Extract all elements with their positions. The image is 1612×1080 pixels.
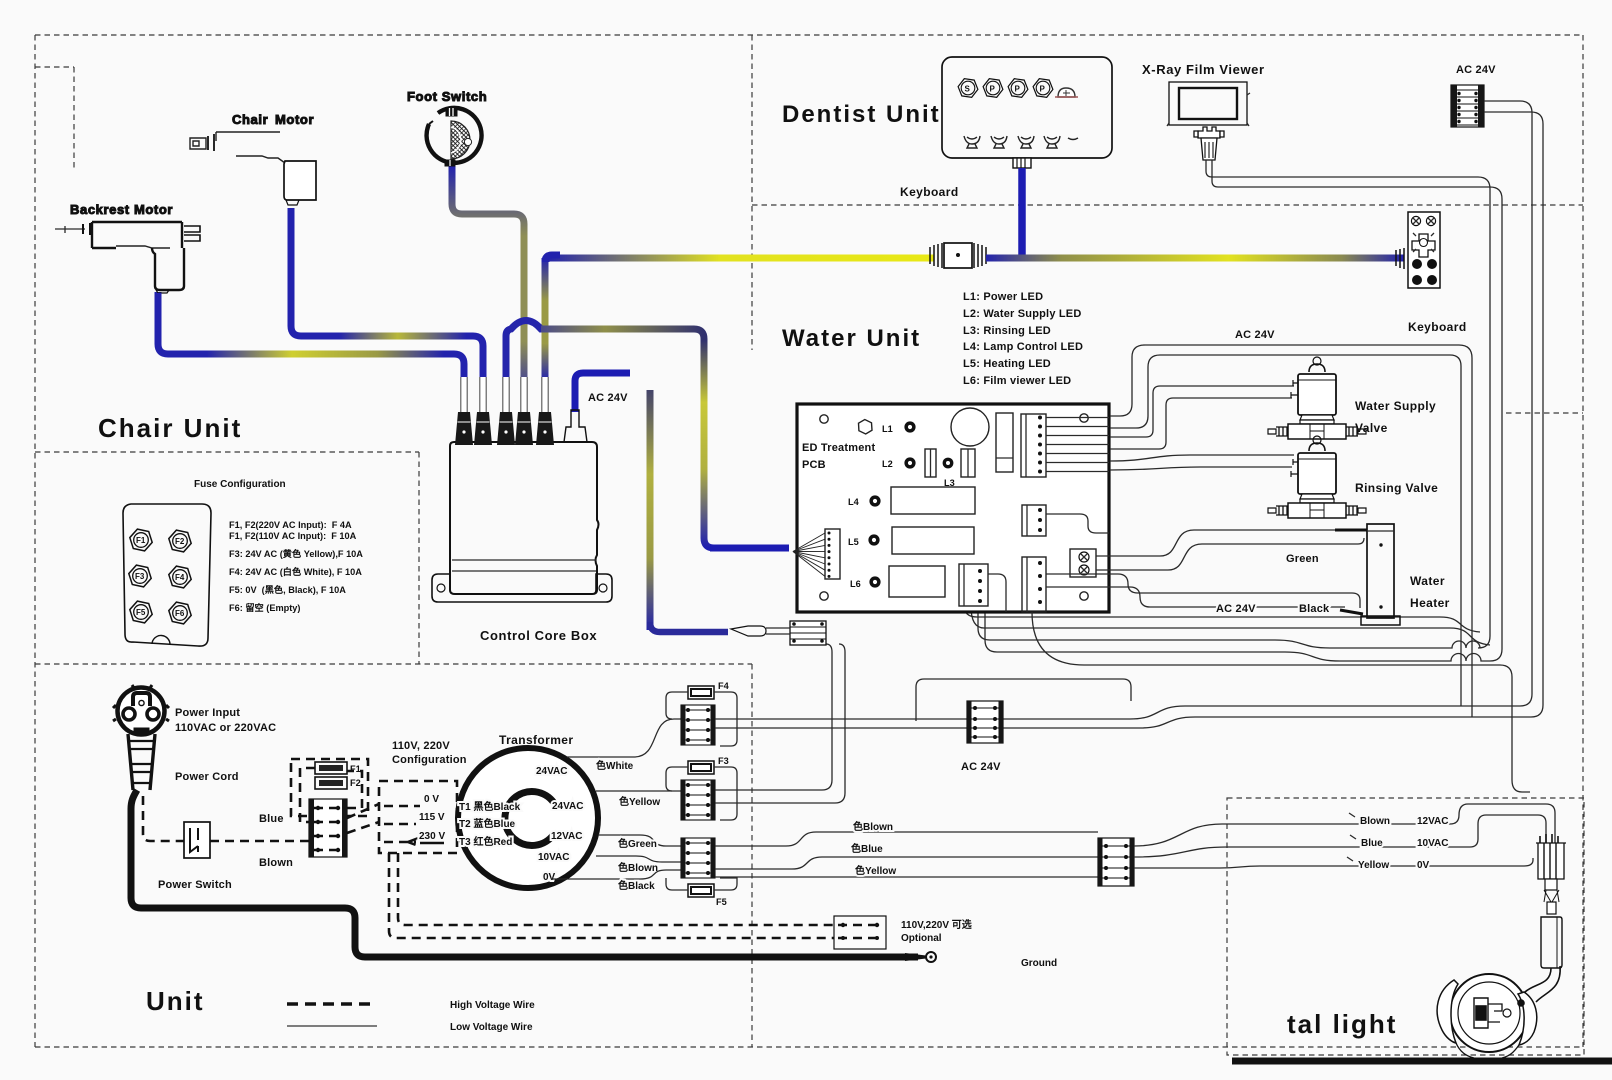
svg-text:色White: 色White bbox=[596, 759, 634, 772]
water heater body bbox=[1367, 524, 1394, 618]
svg-text:12VAC: 12VAC bbox=[551, 831, 583, 842]
svg-text:L5: Heating LED: L5: Heating LED bbox=[963, 358, 1051, 370]
x-ray plug connector bbox=[1194, 127, 1224, 160]
svg-text:PCB: PCB bbox=[802, 459, 826, 471]
svg-text:110VAC or 220VAC: 110VAC or 220VAC bbox=[175, 722, 276, 734]
svg-text:Low Voltage Wire: Low Voltage Wire bbox=[450, 1022, 533, 1033]
svg-text:色Blue: 色Blue bbox=[851, 842, 883, 855]
power switch bbox=[184, 822, 210, 858]
dentist unit chair preset icon bbox=[964, 136, 980, 144]
fuse configuration text bbox=[229, 520, 363, 613]
AC 24V connector block (top right) bbox=[1451, 85, 1484, 127]
inline plug between blue wire and connector bbox=[731, 626, 766, 636]
svg-text:High Voltage Wire: High Voltage Wire bbox=[450, 1000, 535, 1011]
svg-text:F3: F3 bbox=[135, 572, 145, 581]
tal light dashed box bbox=[1227, 798, 1584, 1055]
svg-text:Chair Unit: Chair Unit bbox=[98, 413, 242, 443]
svg-text:Rinsing Valve: Rinsing Valve bbox=[1355, 481, 1438, 495]
svg-text:230 V: 230 V bbox=[419, 831, 445, 842]
110V/220V optional dashed block bbox=[834, 916, 886, 949]
PCB bottom-right connector bbox=[1022, 557, 1046, 612]
svg-text:0V: 0V bbox=[543, 872, 556, 883]
svg-text:Ground: Ground bbox=[1021, 958, 1057, 969]
wire: AC24V bus from F4 (upper) bbox=[715, 718, 1130, 720]
fuse F3 bbox=[129, 565, 151, 587]
svg-text:Blue: Blue bbox=[259, 813, 284, 825]
svg-text:Blown: Blown bbox=[1360, 816, 1390, 827]
PCB small component pair bbox=[925, 449, 936, 477]
wire trio: F5 outputs long run to the right bbox=[715, 832, 1098, 846]
wire: bus detour jog above AC24V connector bbox=[916, 679, 1131, 721]
power cord thick wire bbox=[131, 790, 918, 957]
svg-text:AC 24V: AC 24V bbox=[1216, 603, 1256, 615]
svg-text:色Blown: 色Blown bbox=[618, 861, 658, 874]
PCB tall component bbox=[996, 413, 1013, 472]
control core box body bbox=[432, 442, 612, 602]
svg-text:L6: Film viewer LED: L6: Film viewer LED bbox=[963, 375, 1071, 387]
dentist unit keyboard box bbox=[942, 57, 1112, 158]
svg-text:T2 蓝色Blue: T2 蓝色Blue bbox=[459, 817, 516, 830]
svg-text:F6: 留空 (Empty): F6: 留空 (Empty) bbox=[229, 602, 300, 613]
svg-text:0 V: 0 V bbox=[424, 794, 439, 805]
svg-text:L1: L1 bbox=[882, 424, 893, 434]
wire: main yellow wire horizontal to inline connector bbox=[546, 255, 934, 262]
svg-text:L3: Rinsing LED: L3: Rinsing LED bbox=[963, 325, 1051, 337]
connector white tubes above control box bbox=[461, 377, 466, 412]
ED Treatment PCB board bbox=[797, 404, 1109, 612]
svg-text:L2: Water Supply LED: L2: Water Supply LED bbox=[963, 308, 1082, 320]
fuse F1 bbox=[315, 762, 347, 774]
svg-text:AC 24V: AC 24V bbox=[1235, 329, 1275, 341]
svg-text:L1: Power LED: L1: Power LED bbox=[963, 291, 1043, 303]
svg-text:Power Switch: Power Switch bbox=[158, 879, 232, 891]
svg-text:Keyboard: Keyboard bbox=[900, 185, 959, 199]
svg-text:F2: F2 bbox=[175, 537, 185, 546]
wire: AC24V loop outer (bus from F4 around water unit) bbox=[1110, 355, 1461, 706]
wire: dentist keyboard blue cable down bbox=[1018, 168, 1026, 258]
svg-text:F1, F2(220V AC Input): F 4A: F1, F2(220V AC Input): F 4A bbox=[229, 520, 352, 530]
fuse F2 bbox=[315, 777, 347, 789]
wire: 0V black output to F5 bbox=[551, 870, 681, 879]
svg-text:Chair: Chair bbox=[232, 112, 268, 127]
fuse assembly F5 connector bbox=[681, 838, 715, 878]
svg-text:L6: L6 bbox=[850, 579, 861, 589]
svg-text:X-Ray Film Viewer: X-Ray Film Viewer bbox=[1142, 62, 1265, 77]
wire pair: to rinsing valve bbox=[1110, 455, 1294, 461]
solenoid rinsing valve bbox=[1268, 436, 1366, 518]
dentist unit button icon bbox=[983, 79, 1003, 98]
svg-text:Water Unit: Water Unit bbox=[782, 325, 921, 352]
wire: 24VAC yellow output to F3 bbox=[596, 790, 681, 792]
svg-text:L4: L4 bbox=[848, 497, 860, 507]
wire: AC24V bus from F4 (lower) bbox=[715, 727, 1140, 729]
svg-text:Motor: Motor bbox=[275, 112, 314, 127]
thick page corner line bottom right bbox=[1232, 1058, 1612, 1065]
power plug bbox=[113, 685, 169, 790]
svg-text:F4: F4 bbox=[175, 573, 185, 582]
svg-text:Optional: Optional bbox=[901, 933, 942, 944]
quadrant divider horizontal y=664 (chair/power) bbox=[35, 663, 752, 665]
ground lug bbox=[905, 953, 926, 961]
svg-text:F5: 0V (黑色, Black), F 10A: F5: 0V (黑色, Black), F 10A bbox=[229, 584, 346, 595]
wire: blue into ED PCB left connector bbox=[710, 545, 789, 552]
svg-text:Transformer: Transformer bbox=[499, 733, 573, 747]
chair unit dashed box bbox=[35, 452, 419, 664]
svg-text:AC 24V: AC 24V bbox=[1456, 64, 1496, 76]
wire stub backrest motor bbox=[155, 293, 162, 300]
svg-text:Blue: Blue bbox=[1361, 838, 1383, 849]
black cable connectors on top of control box bbox=[455, 412, 473, 445]
foot switch bbox=[407, 89, 487, 166]
chair AC24V small connector (after inline plug) bbox=[790, 621, 826, 645]
svg-text:Configuration: Configuration bbox=[392, 754, 467, 766]
wire: 10VAC output to F5 bbox=[596, 856, 681, 862]
svg-text:Valve: Valve bbox=[1355, 421, 1388, 435]
svg-text:AC 24V: AC 24V bbox=[588, 392, 628, 404]
dashed wires connector to fuses loop bbox=[300, 768, 362, 822]
wire pair: terminal block to water heater top (green) bbox=[1096, 530, 1340, 556]
svg-text:F6: F6 bbox=[175, 609, 185, 618]
svg-text:ED Treatment: ED Treatment bbox=[802, 442, 875, 454]
svg-text:F1: F1 bbox=[350, 764, 361, 774]
svg-text:色Black: 色Black bbox=[618, 879, 655, 892]
keyboard connector (right side) bbox=[1396, 212, 1440, 288]
svg-text:F3: 24V AC (黄色 Yellow),F 10A: F3: 24V AC (黄色 Yellow),F 10A bbox=[229, 548, 363, 559]
fuse panel plate bbox=[123, 504, 211, 646]
svg-text:L5: L5 bbox=[848, 537, 859, 547]
svg-text:P: P bbox=[1040, 85, 1046, 94]
svg-text:Power Input: Power Input bbox=[175, 707, 240, 719]
svg-text:24VAC: 24VAC bbox=[552, 801, 584, 812]
svg-text:24VAC: 24VAC bbox=[536, 766, 568, 777]
svg-text:Green: Green bbox=[1286, 553, 1319, 565]
dashed wires connector to config box bbox=[347, 804, 379, 818]
wire pair: x-ray viewer down right side, hops, to bottom bundle bbox=[978, 160, 1490, 648]
PCB left multi-pin connector with wire fan bbox=[825, 529, 840, 579]
PCB bottom-center 4-pin connector bbox=[959, 564, 988, 606]
dentist keyboard cable connector bbox=[1013, 158, 1031, 168]
svg-text:Foot Switch: Foot Switch bbox=[407, 89, 487, 104]
svg-text:Dentist Unit: Dentist Unit bbox=[782, 101, 941, 128]
svg-text:色Green: 色Green bbox=[618, 837, 657, 850]
svg-text:Water: Water bbox=[1410, 574, 1445, 588]
fuse F1 bbox=[130, 529, 152, 551]
wire: 12VAC green output to F5 bbox=[598, 835, 681, 846]
wire: AC 24V stub from control box white connector bbox=[575, 373, 630, 412]
dental light plug connector bbox=[1536, 834, 1566, 968]
svg-text:F5: F5 bbox=[716, 897, 727, 907]
dentist unit button icon bbox=[1033, 79, 1053, 98]
svg-text:F1, F2(110V AC Input): F 10A: F1, F2(110V AC Input): F 10A bbox=[229, 531, 357, 541]
svg-text:Control Core Box: Control Core Box bbox=[480, 628, 597, 643]
fuse F5 bbox=[130, 601, 152, 623]
svg-text:115 V: 115 V bbox=[419, 812, 445, 823]
svg-text:F2: F2 bbox=[350, 778, 361, 788]
fuse assembly F3 connector bbox=[681, 780, 715, 820]
fuse F2 bbox=[169, 530, 191, 552]
svg-text:P: P bbox=[990, 85, 996, 94]
svg-text:10VAC: 10VAC bbox=[538, 852, 570, 863]
fuse F4 bbox=[169, 566, 191, 588]
wire: 24VAC white output to F4 bbox=[567, 719, 681, 757]
legend low voltage wire bbox=[287, 1025, 377, 1027]
svg-text:12VAC: 12VAC bbox=[1417, 816, 1449, 827]
svg-text:T3 红色Red: T3 红色Red bbox=[459, 835, 512, 848]
wire: dental light blue 10VAC bbox=[1134, 815, 1546, 857]
wire: dental light yellow 0V bbox=[1134, 858, 1533, 868]
config dashed box bbox=[379, 781, 457, 853]
svg-text:F4: F4 bbox=[718, 681, 730, 691]
dentist unit lamp icon bbox=[1058, 88, 1075, 97]
PCB 7-pin connector bbox=[1021, 414, 1046, 477]
dentist unit chair preset icon bbox=[1044, 136, 1060, 144]
wire: foot switch to control box connector 4 bbox=[452, 166, 524, 377]
PCB hex pad bbox=[859, 420, 873, 435]
svg-text:F4: 24V AC (白色 White), F 10A: F4: 24V AC (白色 White), F 10A bbox=[229, 566, 362, 577]
svg-text:110V,220V 可选: 110V,220V 可选 bbox=[901, 918, 972, 931]
dashed HV down to optional block bbox=[398, 853, 834, 925]
LED legend text bbox=[963, 291, 1083, 387]
wire pair: PCB to water heater bottom (AC24V black) bbox=[1046, 574, 1360, 608]
wire: water-unit line with hop arc into connector 3 bbox=[506, 321, 560, 378]
svg-text:0V: 0V bbox=[1417, 860, 1430, 871]
dentist unit chair preset icon bbox=[991, 136, 1007, 144]
svg-text:Power Cord: Power Cord bbox=[175, 771, 239, 783]
svg-text:Yellow: Yellow bbox=[1358, 860, 1389, 871]
dental light lamp head bbox=[1437, 966, 1560, 1058]
wire: bundle line 2 right end bbox=[971, 606, 1490, 645]
svg-text:Black: Black bbox=[1299, 603, 1330, 615]
PCB screw terminal block bbox=[1070, 549, 1096, 577]
control core box mounting bracket bbox=[432, 574, 612, 602]
svg-text:F5: F5 bbox=[136, 608, 146, 617]
wire: yellow run from inline connector to right keyboard connector bbox=[986, 255, 1404, 262]
legend high voltage wire bbox=[287, 1002, 377, 1005]
svg-text:L4: Lamp Control LED: L4: Lamp Control LED bbox=[963, 341, 1083, 353]
AC 24V mid connector bbox=[967, 701, 1003, 743]
svg-text:色Blown: 色Blown bbox=[853, 820, 893, 833]
svg-text:F1: F1 bbox=[136, 536, 146, 545]
svg-text:Water Supply: Water Supply bbox=[1355, 399, 1436, 413]
wire: AC24V loop inner bbox=[1110, 345, 1472, 717]
svg-text:10VAC: 10VAC bbox=[1417, 838, 1449, 849]
svg-text:T1 黑色Black: T1 黑色Black bbox=[459, 800, 521, 813]
fuse F1 F2 dashed box bbox=[291, 759, 368, 816]
wire pair: F3 outputs to chair AC24V connector bbox=[715, 644, 832, 790]
wire: PCB bottom connector to right bundle, down into dental light box bbox=[1032, 612, 1530, 792]
svg-text:Keyboard: Keyboard bbox=[1408, 320, 1467, 334]
svg-text:色Yellow: 色Yellow bbox=[619, 795, 660, 808]
inline connector on yellow wire bbox=[930, 243, 986, 268]
solenoid water supply valve bbox=[1268, 357, 1366, 439]
svg-text:110V, 220V: 110V, 220V bbox=[392, 740, 450, 752]
quadrant divider vertical x=752 bbox=[751, 35, 753, 1047]
svg-text:tal light: tal light bbox=[1287, 1009, 1397, 1039]
dentist unit chair preset icon bbox=[1018, 136, 1034, 144]
svg-text:Fuse Configuration: Fuse Configuration bbox=[194, 479, 286, 490]
svg-text:P: P bbox=[1015, 85, 1021, 94]
PCB right 3-pin connector bbox=[1022, 505, 1046, 536]
x-ray film viewer screen bbox=[1169, 82, 1247, 125]
svg-text:Backrest Motor: Backrest Motor bbox=[70, 202, 173, 217]
svg-text:色Yellow: 色Yellow bbox=[855, 864, 896, 877]
HV connector block bbox=[309, 799, 347, 857]
wire: main yellow wire vertical into connector 5 bbox=[542, 258, 549, 377]
svg-text:Blown: Blown bbox=[259, 857, 293, 869]
svg-text:AC 24V: AC 24V bbox=[961, 761, 1001, 773]
backrest motor bbox=[55, 202, 200, 293]
wire pair: AC24V block down right side joining AC24V bus bbox=[1130, 101, 1532, 719]
high voltage dashed: plug to switch to connector bbox=[143, 796, 184, 841]
svg-text:L2: L2 bbox=[882, 459, 893, 469]
dentist unit button icon bbox=[958, 79, 978, 98]
svg-text:Heater: Heater bbox=[1410, 596, 1450, 610]
inline connector on F5 wire trio bbox=[1098, 838, 1134, 886]
wire: bundle line 1 right end bbox=[964, 605, 1480, 632]
fuse assembly F4 connector bbox=[681, 705, 715, 745]
wire: backrest motor to control box connector 1 (blue/yellow gradient) bbox=[158, 292, 464, 377]
svg-text:Unit: Unit bbox=[146, 986, 205, 1016]
fuse F6 bbox=[169, 602, 191, 624]
wire: navy vertical x703 down to ED PCB bbox=[704, 340, 714, 548]
wire: olive vertical x650 to inline plug bbox=[647, 390, 654, 630]
wire: chair motor to control box connector 2 bbox=[291, 208, 483, 377]
dashed fragment top-left bbox=[35, 67, 74, 169]
PCB relay circle bbox=[951, 408, 989, 446]
wire: dental light brown 12VAC bbox=[1134, 804, 1555, 846]
svg-text:S: S bbox=[965, 85, 971, 94]
dashed fragment right (y413) bbox=[1506, 412, 1583, 414]
wire pair: to water supply valve bbox=[1110, 386, 1294, 437]
white AC24V connector on control box bbox=[564, 410, 587, 442]
PCB mounting holes bbox=[820, 415, 828, 423]
chair motor bbox=[190, 112, 316, 205]
dentist unit button icon bbox=[1008, 79, 1028, 98]
quadrant divider horizontal y=205 (dentist/water) bbox=[752, 204, 1583, 206]
svg-text:F3: F3 bbox=[718, 756, 729, 766]
